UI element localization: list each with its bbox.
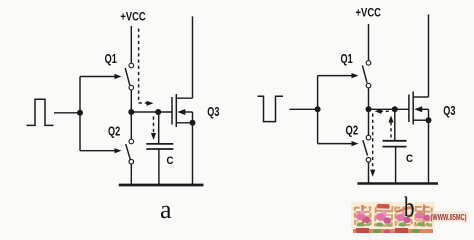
- watermark char 3: [395, 205, 413, 227]
- wire: node to capacitor (a): [158, 112, 160, 143]
- ground bus (b): [357, 182, 438, 185]
- switch Q1 (a): [125, 63, 133, 90]
- junction dot: input branch (a): [77, 110, 83, 116]
- watermark char 1: [355, 205, 371, 227]
- control arrow to Q1 (b): [318, 73, 359, 78]
- wire: Q2 to ground (b): [368, 162, 370, 183]
- junction dot: Q3 source-body (a): [190, 120, 196, 126]
- wire: node to gate (b): [369, 108, 409, 110]
- wire: node to gate (a): [131, 111, 172, 113]
- wire: node to Q2 (b): [368, 109, 370, 135]
- watermark char 4: [415, 204, 432, 227]
- watermark char 2: [375, 204, 392, 227]
- watermark small red url text: [430, 211, 468, 222]
- junction dot: node on main line (b): [366, 106, 372, 112]
- wire: Q1 to node B (b): [368, 88, 370, 109]
- wire: input branch vertical (b): [317, 76, 319, 144]
- watermark row 2 (clipped at bottom): [353, 228, 433, 234]
- dashed charge path from VCC (a): [139, 29, 147, 104]
- wire: capacitor to ground (b): [395, 147, 397, 184]
- wire: input branch vertical (a): [79, 77, 81, 151]
- wire: Q3 source to ground (a): [192, 123, 194, 185]
- svg-text:Q3: Q3: [207, 105, 219, 119]
- watermark backdrop tint: [351, 202, 435, 229]
- wire: Q1 to node A (a): [130, 90, 132, 112]
- watermark row 1: [351, 202, 468, 229]
- wire: VCC lead (b): [368, 24, 370, 60]
- input pulse symbol (b): [258, 96, 284, 121]
- capacitor C (b): [383, 141, 407, 147]
- MOSFET Q3 (b): [409, 92, 429, 125]
- dashed discharge arrow up from capacitor (b): [388, 116, 393, 138]
- wire: capacitor to ground (a): [158, 149, 160, 185]
- capacitor C (a): [146, 144, 173, 149]
- dashed discharge path horizontal (b): [375, 109, 391, 114]
- dashed charge arrow into capacitor (a): [151, 117, 156, 141]
- switch Q1 (b): [362, 61, 370, 88]
- svg-text:+VCC: +VCC: [120, 9, 146, 23]
- MOSFET Q3 (a): [172, 94, 193, 127]
- switch Q2 (a): [126, 139, 134, 164]
- wire: node to capacitor (b): [394, 109, 396, 141]
- svg-text:Q1: Q1: [341, 52, 353, 66]
- junction dot: Q3 source-body (b): [426, 117, 432, 123]
- control arrow to Q2 (a): [80, 148, 122, 153]
- svg-text:Q2: Q2: [108, 125, 120, 139]
- junction dot: input branch (b): [315, 106, 321, 112]
- dashed discharge path down through Q2 (b): [370, 114, 375, 177]
- arrowhead of charge path (a): [147, 101, 154, 106]
- input pulse symbol (a): [27, 99, 54, 125]
- svg-text:C: C: [406, 153, 413, 165]
- svg-text:+VCC: +VCC: [356, 6, 382, 20]
- svg-text:Q3: Q3: [443, 104, 455, 118]
- switch Q2 (b): [363, 135, 371, 162]
- wire: Q2 to ground (a): [130, 164, 132, 185]
- svg-text:Q2: Q2: [346, 124, 359, 138]
- wire: Q3 source to ground (b): [428, 120, 430, 183]
- junction dot: capacitor tap (a): [155, 109, 161, 115]
- wire: node to Q2 (a): [130, 112, 132, 139]
- control arrow to Q1 (a): [80, 74, 122, 79]
- wire: Q3 drain up (b): [428, 14, 430, 97]
- wire: input stub (b): [290, 108, 318, 110]
- svg-text:C: C: [167, 155, 174, 167]
- wire: VCC lead (a): [130, 26, 132, 63]
- wire: Q3 drain up (a): [192, 16, 194, 98]
- wire: input stub (a): [54, 112, 80, 114]
- svg-text:b: b: [404, 192, 415, 224]
- junction dot: capacitor tap (b): [392, 106, 398, 112]
- control arrow to Q2 (b): [318, 141, 359, 146]
- junction dot: node on main line (a): [128, 109, 134, 115]
- svg-text:(WWW.85MC): (WWW.85MC): [431, 213, 467, 222]
- svg-text:Q1: Q1: [105, 52, 117, 66]
- ground bus (a): [119, 184, 204, 187]
- svg-text:a: a: [160, 195, 172, 224]
